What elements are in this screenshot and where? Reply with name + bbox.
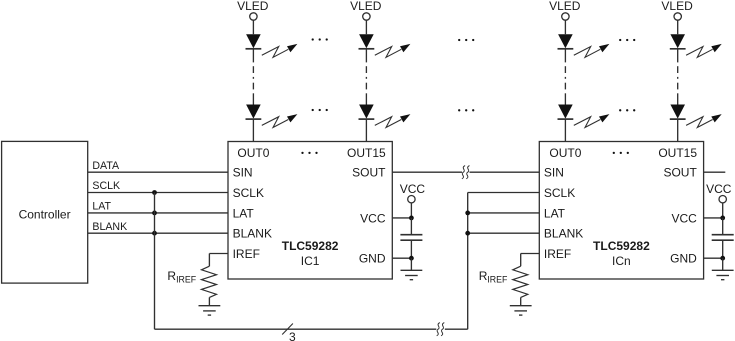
wire bus vertical at ICn side [467,193,469,330]
svg-text:SCLK: SCLK [92,180,120,192]
wire dash (series LEDs continue) (OUT0 ICn) [564,66,566,73]
wire VCC rail to capacitor (ICn) [722,218,724,234]
svg-text:RIREF: RIREF [167,269,196,285]
wire SOUT IC1 toward SIN ICn [392,171,462,173]
ellipsis more devices (bottom row) [458,109,460,111]
light emission arrow, bottom LED (OUT0 ICn) [574,117,601,128]
svg-text:BLANK: BLANK [544,227,583,241]
wire dot (series LEDs continue) (OUT15 IC1) [365,77,367,79]
ellipsis more LED columns (IC1 bottom row) [312,109,314,111]
wire VCC pin to rail (IC1) [392,217,411,219]
svg-text:OUT0: OUT0 [549,146,581,160]
wire DATA controller to SIN IC1 [88,171,228,173]
svg-text:RIREF: RIREF [479,269,508,285]
LED top of string (OUT15 IC1) [359,34,374,48]
wire VLED terminal to LED anode (OUT0 IC1) [252,20,254,34]
wire BLANK bus to BLANK ICn [468,232,540,234]
svg-text:VCC: VCC [706,182,732,196]
svg-text:VCC: VCC [400,182,426,196]
svg-text:LAT: LAT [233,206,255,220]
capacitor VCC bypass (ICn) [712,234,734,236]
IC ICn TLC59282 body [539,142,703,280]
wire resistor to ground (ICn) [520,297,522,305]
svg-text:LAT: LAT [92,201,111,213]
svg-text:GND: GND [359,252,386,266]
svg-text:Controller: Controller [19,207,71,221]
VLED supply terminal (OUT0 ICn) [562,13,569,20]
wire LED cathode to OUT pin (OUT15 IC1) [365,119,367,141]
svg-text:BLANK: BLANK [92,221,127,233]
svg-text:LAT: LAT [544,206,566,220]
wire break symbol on serial data line [462,166,465,179]
wire bus bottom run, left part [155,328,437,330]
junction LAT bus tap [152,211,157,216]
svg-text:SIN: SIN [233,166,253,180]
junction GND rail (IC1) [409,256,414,261]
wire LED string upper segment (OUT0 ICn) [564,49,566,63]
VCC supply terminal (ICn) [719,196,726,203]
LED bottom of string (OUT15 IC1) [359,105,374,119]
LED top of string (OUT0 IC1) [246,34,261,48]
LED bottom of string (OUT15 ICn) [670,105,685,119]
resistor RIREF (ICn) [513,266,528,297]
svg-text:BLANK: BLANK [233,227,272,241]
VLED supply terminal (OUT0 IC1) [250,13,257,20]
VCC supply terminal (IC1) [408,196,415,203]
light emission arrow, bottom LED (OUT0 IC1) [262,117,289,128]
svg-text:OUT0: OUT0 [237,146,269,160]
wire LAT bus to LAT ICn [468,212,540,214]
wire IREF pin to resistor (IC1) [209,253,228,255]
wire VLED terminal to LED anode (OUT0 ICn) [564,20,566,34]
wire resistor to ground (IC1) [208,297,210,305]
wire LED cathode to OUT pin (OUT0 IC1) [252,119,254,141]
wire LED string upper segment (OUT15 IC1) [365,49,367,63]
wire dash (series LEDs continue) (OUT0 IC1) [252,66,254,73]
ellipsis more LED columns (IC1 top row) [312,38,314,40]
ellipsis more LED columns (ICn bottom row) [619,109,621,111]
wire VCC terminal to rail (IC1) [410,203,412,218]
svg-text:SCLK: SCLK [544,186,575,200]
ground (VCC bypass, IC1) [401,269,423,271]
light emission arrow, top LED (OUT0 IC1) [262,47,289,58]
svg-text:VLED: VLED [237,0,269,13]
VLED supply terminal (OUT15 IC1) [363,13,370,20]
svg-text:IREF: IREF [544,247,571,261]
light emission arrow, bottom LED (OUT15 IC1) [375,117,402,128]
wire dash (series LEDs continue) (OUT15 ICn) [677,66,679,73]
wire dot (series LEDs continue) (OUT0 IC1) [252,77,254,79]
junction BLANK bus tap [152,231,157,236]
wire GND rail to ground (IC1) [410,258,412,270]
wire bus bottom run, right part [445,328,468,330]
wire SCLK bus to SCLK ICn [468,192,540,194]
IC IC1 TLC59282 body [228,142,392,280]
bus width slash [282,324,293,335]
svg-text:VCC: VCC [671,211,697,225]
svg-text:TLC59282: TLC59282 [282,239,339,253]
LED top of string (OUT15 ICn) [670,34,685,48]
wire break symbol on bottom bus [437,323,440,336]
svg-text:IC1: IC1 [301,254,320,268]
wire IREF pin to resistor (ICn) [521,253,540,255]
wire dash 2 (series LEDs continue) (OUT0 IC1) [252,83,254,90]
wire bus vertical at controller side [154,193,156,330]
svg-text:VLED: VLED [350,0,382,13]
svg-text:SIN: SIN [544,166,564,180]
controller box [2,141,88,283]
ellipsis OUT1-OUT14 (IC1) [301,152,303,154]
LED top of string (OUT0 ICn) [558,34,573,48]
light emission arrow, top LED (OUT15 IC1) [375,47,402,58]
wire VCC rail to capacitor (IC1) [410,218,412,234]
wire LED string lower segment (OUT15 IC1) [365,93,367,104]
wire GND pin to rail (IC1) [392,257,411,259]
capacitor VCC bypass (IC1) [400,234,422,236]
wire SCLK controller to SCLK IC1 [88,192,228,194]
svg-text:ICn: ICn [612,254,631,268]
svg-text:OUT15: OUT15 [347,146,386,160]
LED bottom of string (OUT0 ICn) [558,105,573,119]
wire GND pin to rail (ICn) [704,257,723,259]
ellipsis OUT1-OUT14 (ICn) [613,152,615,154]
wire serial data line to SIN ICn [470,171,540,173]
svg-text:GND: GND [670,252,697,266]
wire SOUT ICn open stub [704,171,726,173]
wire VCC pin to rail (ICn) [704,217,723,219]
wire VCC terminal to rail (ICn) [722,203,724,218]
junction BLANK bus tap ICn [465,231,470,236]
ellipsis more LED columns (ICn top row) [619,39,621,41]
junction VCC rail (IC1) [409,216,414,221]
wire dash 2 (series LEDs continue) (OUT15 IC1) [365,83,367,90]
wire LED string lower segment (OUT0 IC1) [252,93,254,104]
wire capacitor to GND rail (IC1) [410,241,412,258]
ellipsis more devices (top row) [458,39,460,41]
wire VLED terminal to LED anode (OUT15 ICn) [677,20,679,34]
VLED supply terminal (OUT15 ICn) [674,13,681,20]
wire LED string lower segment (OUT15 ICn) [677,93,679,104]
wire BLANK controller to BLANK IC1 [88,232,228,234]
junction LAT bus tap ICn [465,211,470,216]
svg-text:VLED: VLED [549,0,581,13]
wire GND rail to ground (ICn) [722,258,724,270]
ground (RIREF, IC1) [199,305,221,307]
wire LED string upper segment (OUT15 ICn) [677,49,679,63]
svg-text:IREF: IREF [233,247,260,261]
ground (VCC bypass, ICn) [712,269,734,271]
wire dash (series LEDs continue) (OUT15 IC1) [365,66,367,73]
wire capacitor to GND rail (ICn) [722,241,724,258]
svg-text:VLED: VLED [661,0,693,13]
wire LED string lower segment (OUT0 ICn) [564,93,566,104]
svg-text:OUT15: OUT15 [658,146,697,160]
junction GND rail (ICn) [720,256,725,261]
wire dot (series LEDs continue) (OUT0 ICn) [564,77,566,79]
wire dot (series LEDs continue) (OUT15 ICn) [677,77,679,79]
wire LED string upper segment (OUT0 IC1) [252,49,254,63]
light emission arrow, bottom LED (OUT15 ICn) [686,117,713,128]
svg-text:TLC59282: TLC59282 [593,239,650,253]
wire VLED terminal to LED anode (OUT15 IC1) [365,20,367,34]
svg-text:SOUT: SOUT [663,166,697,180]
ground (RIREF, ICn) [510,305,532,307]
svg-text:VCC: VCC [360,211,386,225]
svg-text:DATA: DATA [92,160,120,172]
svg-text:SCLK: SCLK [233,186,264,200]
wire LED cathode to OUT pin (OUT0 ICn) [564,119,566,141]
junction VCC rail (ICn) [720,216,725,221]
wire LED cathode to OUT pin (OUT15 ICn) [677,119,679,141]
LED bottom of string (OUT0 IC1) [246,105,261,119]
svg-text:SOUT: SOUT [352,166,386,180]
wire dash 2 (series LEDs continue) (OUT0 ICn) [564,83,566,90]
junction SCLK bus tap [152,190,157,195]
light emission arrow, top LED (OUT0 ICn) [574,47,601,58]
svg-text:3: 3 [289,330,296,341]
wire LAT controller to LAT IC1 [88,212,228,214]
light emission arrow, top LED (OUT15 ICn) [686,47,713,58]
wire dash 2 (series LEDs continue) (OUT15 ICn) [677,83,679,90]
resistor RIREF (IC1) [202,266,217,297]
